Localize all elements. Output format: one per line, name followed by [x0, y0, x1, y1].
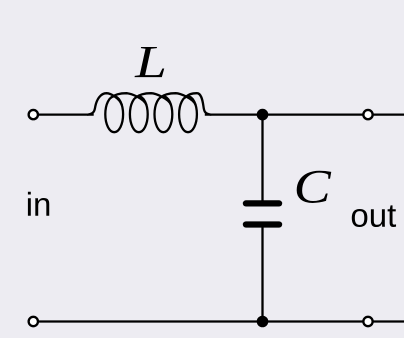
label L: [135, 47, 165, 77]
wire output terminal to right edge: [374, 113, 404, 115]
wire capacitor to node B: [261, 227, 263, 321]
wire top-right: inductor to node A: [205, 113, 263, 115]
capacitor C1 top plate: [243, 200, 282, 206]
wire top-left: input terminal to inductor: [39, 113, 94, 115]
inductor L1 exit arc: [185, 93, 211, 114]
node A junction dot: [257, 109, 269, 121]
inductor L1 entry arc: [88, 93, 122, 114]
inductor L1 loop 2: [130, 96, 148, 132]
inductor L1 loop 1: [105, 96, 123, 132]
wire node A down to capacitor: [261, 115, 263, 201]
inductor L1 loop 3: [155, 96, 173, 132]
inductor L1 bridge arc 3: [160, 93, 195, 105]
inductor L1 loop 4: [179, 96, 197, 132]
label C: [297, 171, 332, 203]
output terminal top: [363, 110, 372, 119]
node B junction dot: [257, 316, 269, 328]
wire bottom rail: [39, 320, 363, 322]
label in: [28, 192, 49, 216]
wire bottom rail to right edge: [374, 320, 404, 322]
input terminal bottom: [29, 317, 38, 326]
wire node A to output terminal: [263, 113, 363, 115]
label out: [352, 205, 396, 227]
capacitor C1 bottom plate: [243, 221, 282, 227]
output terminal bottom: [363, 317, 372, 326]
inductor L1 bridge arc 1: [111, 93, 146, 105]
input terminal top: [29, 110, 38, 119]
inductor L1 bridge arc 2: [136, 93, 171, 105]
